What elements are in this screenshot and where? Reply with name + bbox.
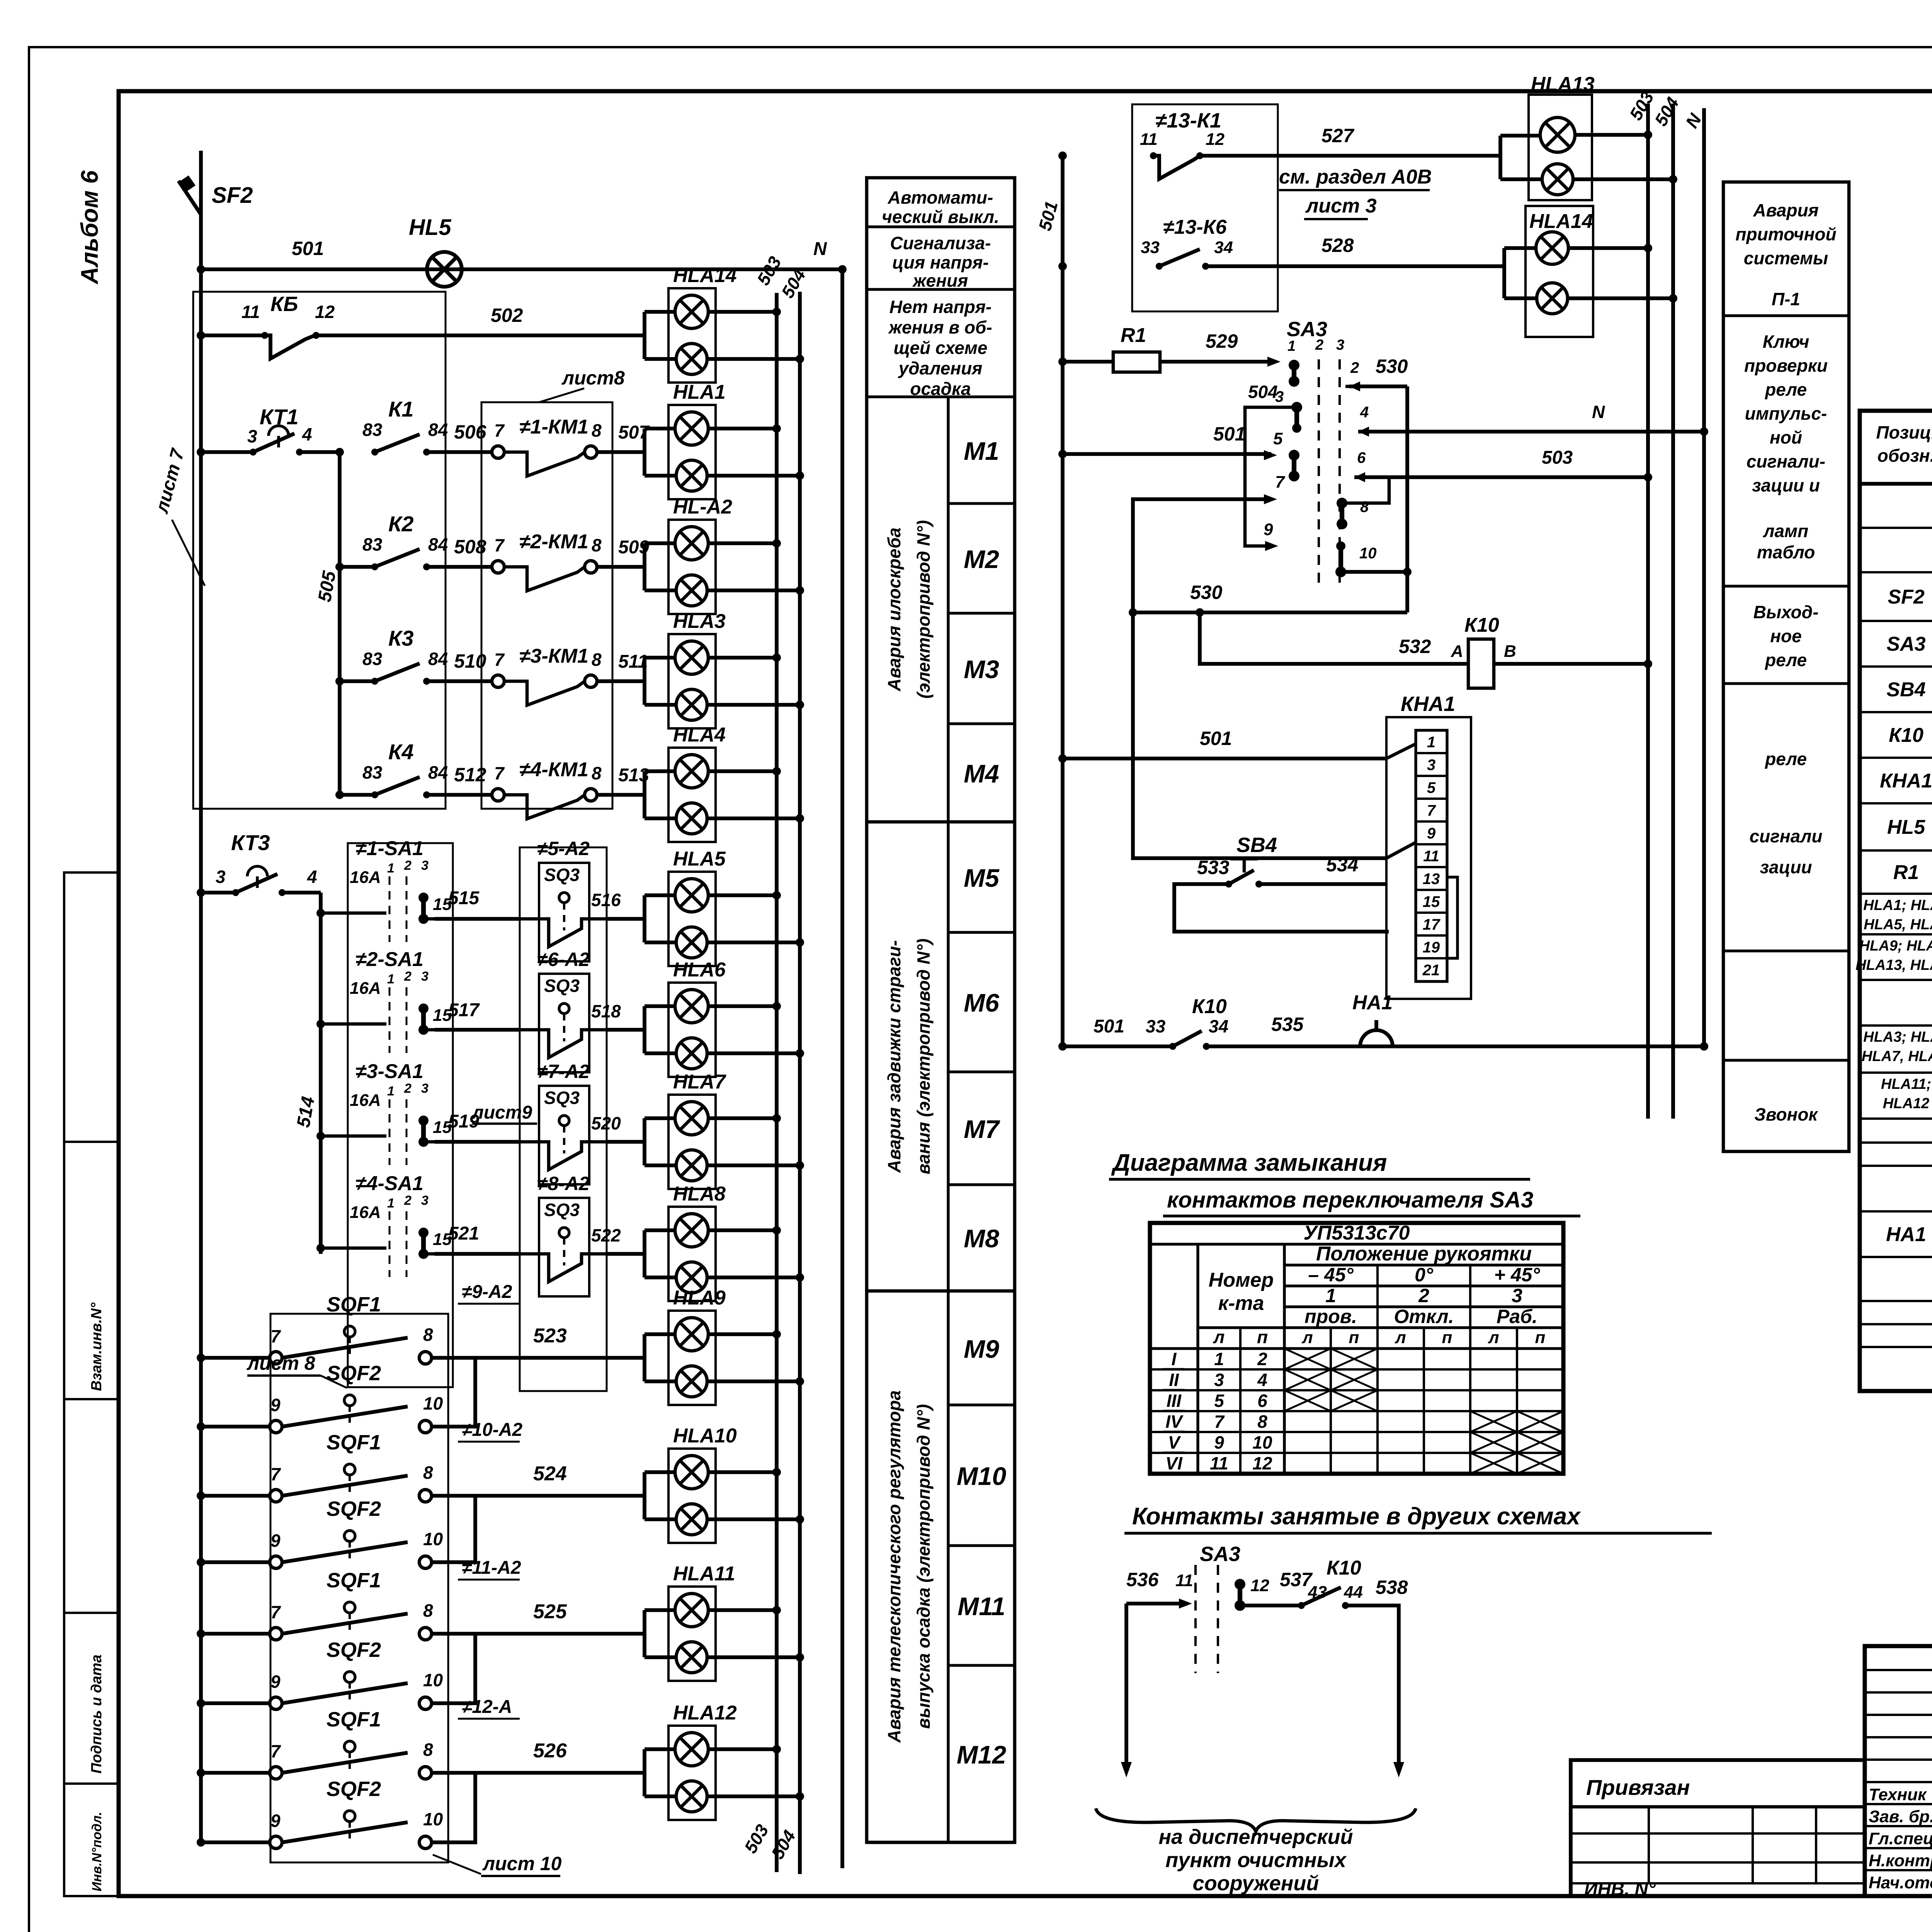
svg-text:К10: К10 — [1889, 724, 1923, 747]
svg-text:Авария: Авария — [1753, 200, 1818, 220]
svg-text:2: 2 — [1350, 359, 1359, 376]
svg-text:HLA14: HLA14 — [1529, 210, 1593, 233]
svg-text:7: 7 — [1214, 1412, 1225, 1432]
svg-text:Гл.спец.: Гл.спец. — [1869, 1829, 1932, 1848]
svg-text:10: 10 — [1359, 545, 1377, 562]
svg-text:33: 33 — [1141, 238, 1160, 257]
svg-text:1: 1 — [1214, 1349, 1224, 1369]
svg-text:12: 12 — [1250, 1576, 1269, 1595]
svg-text:сооружений: сооружений — [1193, 1872, 1319, 1895]
svg-text:SQF1: SQF1 — [327, 1431, 381, 1454]
svg-text:HLA1; HLA2: HLA1; HLA2 — [1863, 897, 1932, 913]
svg-text:5: 5 — [1273, 429, 1283, 448]
svg-text:М7: М7 — [964, 1115, 1000, 1143]
svg-text:л: л — [1301, 1328, 1313, 1347]
svg-text:7: 7 — [494, 420, 505, 440]
svg-text:2: 2 — [404, 1081, 412, 1096]
svg-text:вания (электропривод N°): вания (электропривод N°) — [913, 939, 934, 1174]
svg-text:8: 8 — [423, 1740, 433, 1760]
svg-text:3: 3 — [1214, 1370, 1224, 1390]
svg-text:HLA11: HLA11 — [673, 1563, 735, 1585]
svg-text:HLA13, HLA14: HLA13, HLA14 — [1855, 957, 1932, 973]
svg-text:III: III — [1167, 1391, 1182, 1411]
svg-text:УП5313с70: УП5313с70 — [1303, 1222, 1410, 1244]
svg-text:К2: К2 — [388, 512, 414, 536]
svg-text:реле: реле — [1764, 749, 1807, 769]
svg-text:509: 509 — [618, 537, 649, 558]
svg-text:SQF1: SQF1 — [327, 1569, 381, 1592]
svg-text:535: 535 — [1271, 1014, 1304, 1035]
svg-text:К10: К10 — [1327, 1557, 1361, 1579]
svg-text:≠3-КМ1: ≠3-КМ1 — [519, 645, 588, 667]
svg-text:3: 3 — [421, 1081, 429, 1096]
svg-text:4: 4 — [1360, 404, 1369, 421]
svg-text:≠2-SA1: ≠2-SA1 — [355, 948, 423, 971]
svg-text:НА1: НА1 — [1352, 992, 1393, 1014]
svg-text:3: 3 — [421, 1193, 429, 1208]
svg-text:на диспетчерский: на диспетчерский — [1159, 1825, 1353, 1849]
svg-text:Ключ: Ключ — [1763, 332, 1810, 352]
svg-text:к-та: к-та — [1218, 1292, 1264, 1315]
svg-text:HLA7: HLA7 — [673, 1071, 726, 1093]
svg-text:HLA14: HLA14 — [673, 264, 737, 287]
svg-text:1: 1 — [387, 1196, 395, 1211]
svg-text:VI: VI — [1165, 1453, 1183, 1473]
svg-text:удаления: удаления — [898, 358, 983, 378]
svg-text:HLA3; HLA4: HLA3; HLA4 — [1863, 1029, 1932, 1045]
svg-text:см. раздел А0В: см. раздел А0В — [1279, 166, 1432, 188]
svg-text:п: п — [1349, 1328, 1359, 1347]
svg-text:HL5: HL5 — [1887, 816, 1925, 838]
svg-text:сигнали-: сигнали- — [1747, 451, 1825, 471]
svg-text:16А: 16А — [350, 979, 381, 998]
svg-text:М11: М11 — [957, 1592, 1005, 1621]
svg-text:ной: ной — [1770, 427, 1802, 447]
svg-text:501: 501 — [1094, 1016, 1124, 1037]
svg-text:Зав. бр.: Зав. бр. — [1869, 1807, 1932, 1826]
svg-text:≠8-А2: ≠8-А2 — [537, 1173, 590, 1194]
svg-text:Автомати-: Автомати- — [888, 187, 993, 207]
svg-text:HLA12: HLA12 — [1883, 1095, 1929, 1112]
svg-text:л: л — [1488, 1328, 1499, 1347]
svg-text:12: 12 — [1206, 130, 1225, 149]
svg-text:501: 501 — [292, 238, 324, 259]
svg-text:пункт очистных: пункт очистных — [1165, 1849, 1347, 1872]
svg-text:HLA8: HLA8 — [673, 1183, 726, 1205]
svg-text:Нет напря-: Нет напря- — [889, 297, 992, 317]
svg-text:SQ3: SQ3 — [544, 865, 580, 885]
svg-text:12: 12 — [315, 302, 335, 322]
svg-text:обозн.: обозн. — [1878, 446, 1932, 466]
svg-text:≠9-А2: ≠9-А2 — [462, 1282, 512, 1302]
svg-text:≠6-А2: ≠6-А2 — [537, 949, 590, 970]
svg-text:13: 13 — [1423, 871, 1440, 888]
svg-text:сигнали: сигнали — [1750, 826, 1823, 846]
svg-text:21: 21 — [1422, 962, 1440, 979]
svg-text:Положение рукоятки: Положение рукоятки — [1316, 1243, 1532, 1265]
svg-text:524: 524 — [533, 1463, 567, 1485]
svg-text:16А: 16А — [350, 1091, 381, 1110]
svg-text:Инв.N°подл.: Инв.N°подл. — [90, 1812, 104, 1891]
svg-text:лист 3: лист 3 — [1305, 195, 1377, 217]
svg-text:8: 8 — [592, 535, 602, 555]
svg-text:16А: 16А — [350, 1203, 381, 1222]
svg-text:Звонок: Звонок — [1754, 1104, 1818, 1124]
svg-text:SQ3: SQ3 — [544, 1200, 580, 1220]
svg-text:л: л — [1213, 1327, 1225, 1347]
svg-text:Диаграмма замыкания: Диаграмма замыкания — [1111, 1150, 1387, 1176]
svg-text:лист 10: лист 10 — [482, 1853, 562, 1874]
svg-text:4: 4 — [307, 867, 317, 887]
svg-text:8: 8 — [1257, 1412, 1267, 1432]
svg-text:518: 518 — [591, 1001, 621, 1021]
svg-text:М2: М2 — [964, 545, 999, 573]
svg-text:HLA10: HLA10 — [673, 1425, 737, 1447]
svg-text:КНА1: КНА1 — [1880, 770, 1932, 792]
svg-text:533: 533 — [1197, 857, 1230, 878]
svg-text:HLA12: HLA12 — [673, 1702, 737, 1724]
svg-text:17: 17 — [1423, 916, 1440, 933]
svg-text:10: 10 — [1252, 1432, 1272, 1452]
svg-text:ческий выкл.: ческий выкл. — [882, 207, 999, 227]
svg-text:SQ3: SQ3 — [544, 976, 580, 996]
svg-text:КТ3: КТ3 — [231, 830, 270, 855]
svg-text:3: 3 — [421, 858, 429, 873]
svg-text:530: 530 — [1190, 582, 1223, 603]
svg-text:IV: IV — [1165, 1412, 1184, 1432]
svg-text:Авария задвижки страги-: Авария задвижки страги- — [884, 940, 904, 1173]
svg-text:515: 515 — [448, 888, 480, 908]
svg-text:реле: реле — [1764, 650, 1807, 670]
svg-text:6: 6 — [1257, 1391, 1267, 1411]
svg-text:зации: зации — [1760, 857, 1812, 877]
svg-text:7: 7 — [494, 763, 505, 783]
svg-text:504: 504 — [1248, 382, 1278, 402]
svg-text:8: 8 — [423, 1463, 433, 1483]
svg-text:534: 534 — [1326, 854, 1358, 876]
svg-text:HLA3: HLA3 — [673, 610, 726, 633]
svg-text:536: 536 — [1126, 1569, 1159, 1590]
svg-text:HLA7, HLA8,: HLA7, HLA8, — [1862, 1048, 1932, 1065]
svg-text:532: 532 — [1399, 636, 1431, 657]
svg-text:3: 3 — [216, 867, 226, 887]
svg-text:1: 1 — [1287, 338, 1296, 354]
svg-text:9: 9 — [1214, 1432, 1224, 1452]
svg-text:519: 519 — [448, 1111, 479, 1132]
svg-text:– 45°: – 45° — [1308, 1264, 1354, 1286]
svg-text:М12: М12 — [957, 1740, 1007, 1769]
svg-text:8: 8 — [592, 420, 602, 440]
svg-text:1: 1 — [1427, 734, 1435, 751]
svg-text:проверки: проверки — [1744, 355, 1828, 376]
svg-text:SВ4: SВ4 — [1236, 833, 1277, 857]
svg-text:7: 7 — [270, 1741, 281, 1761]
svg-text:0°: 0° — [1415, 1264, 1434, 1286]
svg-text:М4: М4 — [964, 759, 999, 788]
svg-text:реле: реле — [1764, 379, 1807, 400]
svg-text:приточной: приточной — [1735, 224, 1836, 244]
svg-text:513: 513 — [618, 765, 649, 786]
svg-text:ция напря-: ция напря- — [892, 252, 989, 272]
svg-text:≠13-К6: ≠13-К6 — [1163, 216, 1227, 238]
svg-text:10: 10 — [423, 1670, 443, 1690]
svg-text:≠10-А2: ≠10-А2 — [462, 1420, 522, 1440]
svg-text:4: 4 — [1257, 1370, 1267, 1390]
svg-text:ное: ное — [1770, 626, 1801, 646]
svg-text:11: 11 — [1423, 848, 1439, 865]
svg-text:523: 523 — [533, 1325, 567, 1347]
svg-text:R1: R1 — [1893, 861, 1919, 884]
svg-text:выпуска осадка (электропривод: выпуска осадка (электропривод N°) — [913, 1404, 934, 1729]
svg-text:HLA5: HLA5 — [673, 848, 726, 870]
svg-text:SА3: SА3 — [1200, 1543, 1240, 1566]
svg-text:≠12-А: ≠12-А — [462, 1697, 512, 1717]
svg-text:7: 7 — [1427, 802, 1436, 819]
svg-text:М1: М1 — [964, 437, 999, 465]
svg-text:529: 529 — [1206, 330, 1238, 352]
svg-text:10: 10 — [423, 1529, 443, 1549]
svg-text:12: 12 — [1252, 1453, 1272, 1473]
svg-text:83: 83 — [362, 534, 383, 554]
svg-text:11: 11 — [1175, 1571, 1193, 1590]
svg-text:п: п — [1535, 1328, 1546, 1347]
svg-text:16А: 16А — [350, 868, 381, 887]
svg-text:П-1: П-1 — [1772, 289, 1800, 309]
svg-text:щей схеме: щей схеме — [894, 338, 988, 358]
svg-text:83: 83 — [362, 649, 383, 669]
svg-text:HLA9; HLA10: HLA9; HLA10 — [1859, 938, 1932, 954]
svg-text:HLA1: HLA1 — [673, 381, 726, 403]
svg-text:≠2-КМ1: ≠2-КМ1 — [519, 531, 588, 553]
svg-text:контактов переключателя SА3: контактов переключателя SА3 — [1167, 1187, 1533, 1213]
svg-text:≠4-КМ1: ≠4-КМ1 — [519, 759, 588, 781]
svg-text:6: 6 — [1357, 449, 1366, 466]
svg-text:526: 526 — [533, 1740, 567, 1762]
svg-text:SF2: SF2 — [212, 183, 253, 208]
svg-text:Н.контр: Н.контр — [1869, 1851, 1932, 1870]
svg-text:9: 9 — [1264, 520, 1273, 539]
svg-text:HLA13: HLA13 — [1531, 73, 1595, 95]
svg-text:≠7-А2: ≠7-А2 — [537, 1061, 590, 1082]
svg-text:11: 11 — [1140, 130, 1158, 149]
svg-text:А: А — [1451, 642, 1463, 661]
svg-text:К3: К3 — [388, 626, 414, 650]
svg-text:516: 516 — [591, 890, 621, 910]
svg-text:М6: М6 — [964, 988, 1000, 1017]
svg-text:SQF2: SQF2 — [327, 1497, 381, 1520]
svg-text:528: 528 — [1321, 235, 1354, 256]
svg-text:3: 3 — [247, 426, 257, 446]
svg-text:1: 1 — [387, 972, 395, 986]
svg-text:Выход-: Выход- — [1753, 602, 1819, 622]
svg-text:≠5-А2: ≠5-А2 — [537, 838, 590, 859]
svg-text:11: 11 — [1210, 1453, 1228, 1473]
svg-text:К10: К10 — [1464, 614, 1499, 636]
svg-text:КБ: КБ — [270, 293, 298, 316]
svg-text:HLA4: HLA4 — [673, 724, 726, 746]
svg-text:503: 503 — [1542, 447, 1573, 468]
svg-text:осадка: осадка — [910, 379, 971, 399]
svg-text:530: 530 — [1376, 355, 1408, 377]
svg-text:М9: М9 — [964, 1335, 999, 1363]
svg-text:N: N — [1592, 402, 1605, 422]
svg-text:Привязан: Привязан — [1586, 1775, 1690, 1799]
svg-text:1: 1 — [387, 861, 395, 876]
svg-text:SQ3: SQ3 — [544, 1088, 580, 1108]
svg-text:импульс-: импульс- — [1745, 403, 1827, 423]
svg-text:19: 19 — [1423, 939, 1440, 956]
svg-text:7: 7 — [1275, 473, 1286, 492]
svg-text:34: 34 — [1209, 1016, 1228, 1036]
svg-text:520: 520 — [591, 1113, 621, 1133]
svg-text:SА3: SА3 — [1886, 633, 1925, 655]
svg-text:Позиц.: Позиц. — [1876, 422, 1932, 442]
svg-text:SQF2: SQF2 — [327, 1362, 381, 1385]
svg-text:501: 501 — [1213, 423, 1245, 445]
svg-text:3: 3 — [421, 969, 429, 984]
svg-text:525: 525 — [533, 1600, 567, 1623]
svg-text:К10: К10 — [1192, 995, 1227, 1018]
svg-text:п: п — [1257, 1327, 1268, 1347]
svg-text:HL5: HL5 — [409, 215, 451, 240]
svg-text:жения: жения — [912, 270, 968, 291]
svg-text:SQF1: SQF1 — [327, 1293, 381, 1316]
svg-text:11: 11 — [241, 302, 260, 322]
svg-text:R1: R1 — [1121, 324, 1146, 347]
svg-text:HL-A2: HL-A2 — [673, 496, 732, 518]
svg-text:Авария телескопического регу: Авария телескопического регулятора — [884, 1390, 904, 1743]
svg-text:Раб.: Раб. — [1497, 1306, 1537, 1327]
svg-text:М10: М10 — [957, 1462, 1007, 1490]
svg-text:517: 517 — [448, 1000, 480, 1020]
svg-text:34: 34 — [1214, 238, 1233, 257]
svg-text:2: 2 — [1257, 1349, 1267, 1369]
svg-text:Контакты занятые в друг: Контакты занятые в других схемах — [1132, 1503, 1581, 1530]
svg-text:527: 527 — [1321, 125, 1355, 146]
svg-text:7: 7 — [270, 1464, 281, 1484]
svg-text:(электропривод N°): (электропривод N°) — [913, 520, 934, 699]
svg-text:7: 7 — [270, 1602, 281, 1622]
svg-text:Сигнализа-: Сигнализа- — [890, 233, 991, 253]
svg-text:Номер: Номер — [1209, 1269, 1274, 1291]
svg-text:8: 8 — [423, 1600, 433, 1621]
svg-text:15: 15 — [1423, 893, 1440, 910]
svg-text:М3: М3 — [964, 655, 999, 684]
svg-text:≠3-SA1: ≠3-SA1 — [355, 1060, 423, 1083]
svg-text:Техник: Техник — [1869, 1785, 1927, 1804]
svg-text:зации и: зации и — [1752, 475, 1820, 495]
svg-text:М5: М5 — [964, 864, 1000, 892]
svg-text:≠11-А2: ≠11-А2 — [462, 1558, 521, 1578]
svg-text:К1: К1 — [388, 397, 414, 421]
svg-text:2: 2 — [404, 1193, 412, 1208]
svg-text:1: 1 — [1325, 1285, 1336, 1306]
svg-text:КНА1: КНА1 — [1401, 692, 1455, 716]
svg-text:8: 8 — [592, 650, 602, 670]
svg-text:511: 511 — [618, 651, 648, 672]
svg-text:8: 8 — [592, 763, 602, 783]
svg-text:≠1-КМ1: ≠1-КМ1 — [519, 416, 588, 438]
svg-text:К4: К4 — [388, 740, 414, 764]
svg-text:3: 3 — [1336, 337, 1344, 353]
svg-text:2: 2 — [1418, 1285, 1429, 1306]
svg-text:жения в об-: жения в об- — [888, 317, 992, 337]
svg-text:8: 8 — [1360, 498, 1369, 515]
svg-text:лист8: лист8 — [561, 367, 625, 389]
svg-text:Откл.: Откл. — [1394, 1306, 1454, 1327]
svg-text:44: 44 — [1344, 1583, 1363, 1602]
svg-text:SQF1: SQF1 — [327, 1708, 381, 1731]
svg-text:SQF2: SQF2 — [327, 1777, 381, 1801]
svg-text:5: 5 — [1214, 1391, 1225, 1411]
svg-text:лист9: лист9 — [471, 1102, 532, 1123]
svg-text:I: I — [1172, 1349, 1177, 1369]
svg-text:33: 33 — [1146, 1016, 1166, 1036]
svg-text:7: 7 — [494, 535, 505, 555]
svg-text:В: В — [1504, 642, 1516, 661]
svg-text:пров.: пров. — [1304, 1306, 1357, 1327]
svg-text:10: 10 — [423, 1809, 443, 1829]
svg-text:л: л — [1395, 1328, 1406, 1347]
svg-text:2: 2 — [404, 969, 412, 984]
svg-text:системы: системы — [1744, 248, 1828, 268]
svg-text:Взам.инв.N°: Взам.инв.N° — [88, 1302, 105, 1391]
svg-text:9: 9 — [270, 1531, 281, 1551]
svg-text:HLA5, HLA6: HLA5, HLA6 — [1864, 917, 1932, 933]
svg-text:1: 1 — [387, 1084, 395, 1099]
svg-text:Подпись и дата: Подпись и дата — [88, 1655, 105, 1774]
svg-text:SQF2: SQF2 — [327, 1638, 381, 1662]
svg-text:9: 9 — [270, 1811, 281, 1831]
svg-text:V: V — [1168, 1432, 1181, 1452]
svg-text:Нач.отд: Нач.отд — [1869, 1873, 1932, 1892]
svg-text:HLA11;: HLA11; — [1881, 1076, 1931, 1092]
svg-text:≠4-SA1: ≠4-SA1 — [355, 1172, 423, 1195]
svg-text:3: 3 — [1427, 757, 1435, 774]
svg-text:М8: М8 — [964, 1224, 999, 1253]
svg-text:+ 45°: + 45° — [1494, 1264, 1541, 1286]
svg-text:HLA6: HLA6 — [673, 959, 726, 981]
svg-text:N: N — [813, 239, 827, 259]
svg-text:SВ4: SВ4 — [1886, 679, 1925, 701]
svg-text:Альбом 6: Альбом 6 — [77, 170, 103, 285]
svg-text:83: 83 — [362, 762, 383, 782]
svg-text:507: 507 — [618, 422, 650, 443]
svg-text:HLA9: HLA9 — [673, 1287, 726, 1309]
svg-text:502: 502 — [491, 304, 523, 326]
svg-text:9: 9 — [270, 1672, 281, 1692]
svg-text:5: 5 — [1427, 779, 1436, 796]
svg-text:501: 501 — [1200, 728, 1232, 749]
svg-text:табло: табло — [1757, 542, 1815, 562]
svg-text:521: 521 — [448, 1223, 479, 1244]
svg-text:≠1-SA1: ≠1-SA1 — [355, 837, 423, 860]
svg-text:II: II — [1169, 1370, 1179, 1390]
svg-text:8: 8 — [423, 1325, 433, 1345]
svg-text:3: 3 — [1512, 1285, 1522, 1306]
svg-text:9: 9 — [1427, 825, 1436, 842]
svg-text:SF2: SF2 — [1888, 586, 1924, 608]
svg-text:7: 7 — [494, 650, 505, 670]
svg-text:п: п — [1442, 1328, 1452, 1347]
svg-text:НА1: НА1 — [1886, 1223, 1926, 1246]
svg-text:≠13-К1: ≠13-К1 — [1155, 109, 1221, 132]
svg-text:2: 2 — [1315, 337, 1323, 353]
svg-text:ламп: ламп — [1763, 521, 1808, 541]
svg-text:4: 4 — [302, 424, 312, 444]
svg-text:7: 7 — [270, 1326, 281, 1346]
svg-text:Авария илоскреба: Авария илоскреба — [884, 527, 904, 691]
